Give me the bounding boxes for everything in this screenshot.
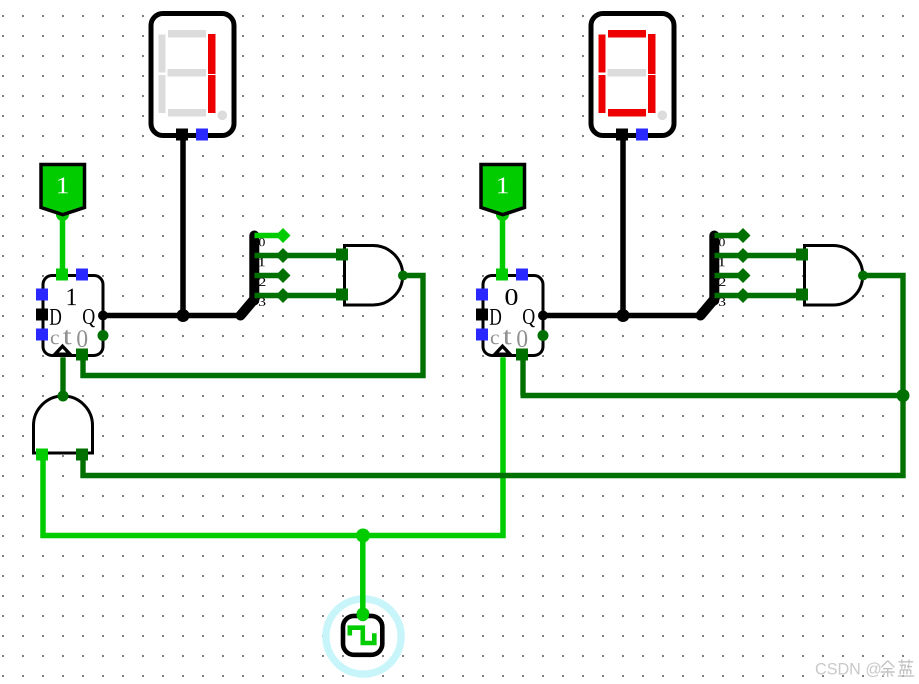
svg-text:CSDN @: CSDN @: [815, 660, 882, 678]
